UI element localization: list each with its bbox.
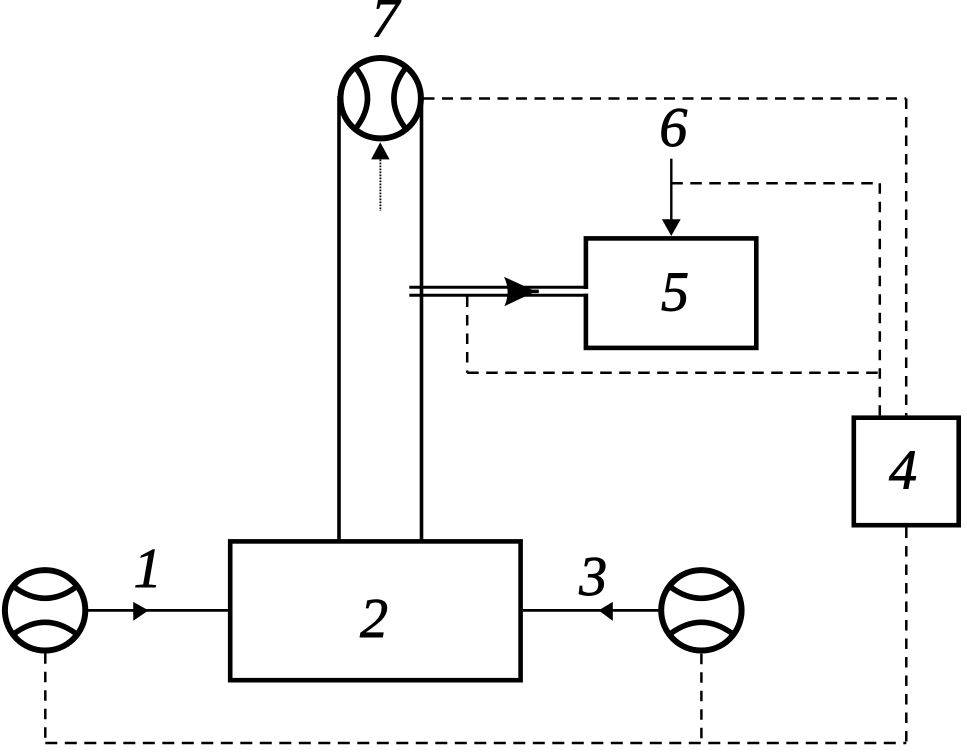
up arrow in column (stem) [379,160,381,212]
wire: dashed control line from valve 7 to right bus [424,97,907,100]
arrowhead line 3 [599,602,613,621]
pipe notch through box 5 wall [583,289,589,294]
wire: dashed vertical inner bus down to unit 4 [879,183,882,415]
wire: dashed drop from left valve [44,653,47,743]
left valve bottom seam arc [14,622,76,633]
left valve circle [5,570,85,650]
svg-text:5: 5 [661,261,689,323]
wire: dashed vertical from unit 4 bottom to bottom bus [905,528,908,744]
svg-text:2: 2 [360,588,388,650]
wire: dashed tap below pipe [466,297,469,373]
box unit 4 [854,418,959,526]
arrowhead line 1 [133,602,148,621]
svg-text:6: 6 [659,97,687,159]
arrowhead into unit 5 [662,219,681,236]
svg-text:7: 7 [371,0,401,50]
feed line 1 [86,609,229,612]
wire: dashed drop from right valve [700,654,703,743]
column left wall [337,96,341,541]
feed line 3 [523,609,659,612]
valve 7 circle [341,58,421,138]
pipe arrow tip nub [530,290,539,294]
box unit 2 [230,541,520,680]
pipe arrowhead [504,277,536,306]
svg-text:3: 3 [578,546,607,608]
wire: dashed branch from line 6 feed [671,182,880,185]
valve 7 left seam arc [355,67,367,129]
pipe to analyzer (upper line) [409,286,585,289]
up arrow in column (head) [371,142,390,159]
right valve bottom seam arc [671,622,733,633]
right valve circle [661,570,741,650]
wire: dashed vertical right outer bus down to unit 4 [905,99,908,416]
left valve top seam arc [14,587,76,598]
column right wall [420,96,424,541]
pipe to analyzer (lower line) [409,294,585,297]
valve 7 right seam arc [394,67,406,129]
right valve top seam arc [671,587,733,598]
svg-text:1: 1 [134,538,162,600]
wire: dashed horizontal from pipe tap to inner bus [467,372,880,375]
wire: dashed bottom bus [45,742,906,745]
feed line 6 into unit 5 [670,159,672,223]
svg-text:4: 4 [889,440,917,502]
box unit 5 [586,238,756,348]
